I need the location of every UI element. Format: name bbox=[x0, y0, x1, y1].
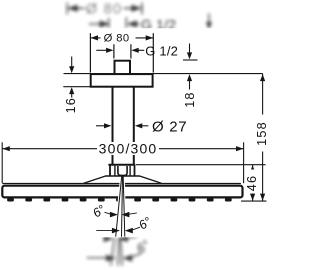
cone collar right side bbox=[134, 165, 136, 176]
dimension 158 top arrow bbox=[260, 74, 265, 81]
blurred letterbox band bottom (faded ghost of spray annotations) bbox=[87, 235, 153, 265]
dimension 300/300 extension left bbox=[1, 142, 3, 183]
svg-text:16: 16 bbox=[64, 97, 78, 113]
dimension 16 up arrow bbox=[69, 87, 74, 94]
svg-text:300/300: 300/300 bbox=[99, 140, 158, 156]
dimension 18 top extension line bbox=[183, 59, 198, 61]
G1/2 extension tick right bbox=[130, 44, 132, 58]
dimension O80 extension line right bbox=[152, 33, 154, 72]
dimension 300/300 right arrow bbox=[236, 146, 243, 151]
upper 6-degree right leader arrow bbox=[121, 212, 129, 218]
spray line halo bbox=[116, 177, 125, 237]
pipe right edge bbox=[133, 87, 135, 164]
ceiling line bbox=[64, 73, 263, 75]
svg-text:G 1/2: G 1/2 bbox=[145, 44, 178, 59]
dimension O80 extension line left bbox=[89, 33, 91, 72]
svg-text:18: 18 bbox=[183, 91, 197, 107]
spray line right bbox=[123, 176, 125, 237]
dimension 46 line bbox=[252, 165, 254, 201]
head band bbox=[2, 186, 242, 198]
head slope right bbox=[140, 176, 162, 183]
blurred letterbox band top (faded ghost of dimension rows) bbox=[67, 2, 212, 33]
svg-text:Ø 80: Ø 80 bbox=[86, 2, 122, 18]
head top surface line bbox=[2, 183, 241, 185]
dimension 158 line bbox=[262, 74, 264, 202]
spray line left bbox=[116, 176, 122, 237]
cone inner cup bbox=[118, 166, 127, 175]
dimension 46 top arrow bbox=[250, 165, 255, 172]
label 158 halo bbox=[257, 115, 270, 152]
cone nut inner left line bbox=[114, 166, 116, 176]
svg-text:158: 158 bbox=[255, 121, 269, 146]
ceiling plate bbox=[91, 74, 153, 87]
dimension 300/300 left arrow bbox=[2, 146, 9, 151]
spray line center bbox=[122, 176, 123, 237]
cone collar left side bbox=[109, 165, 111, 176]
head plateau line bbox=[105, 175, 140, 177]
dimension 300/300 line bbox=[2, 148, 243, 150]
svg-text:Ø 27: Ø 27 bbox=[152, 118, 187, 135]
cone collar top bbox=[108, 164, 135, 166]
label O80 halo bbox=[101, 32, 136, 44]
spray nozzles row bbox=[7, 198, 232, 201]
lower 6-degree left leader arrow bbox=[96, 230, 114, 232]
dimension 158 extension bottom line bbox=[241, 200, 267, 202]
svg-text:Ø 80: Ø 80 bbox=[104, 33, 130, 45]
cone nut inner right line bbox=[129, 166, 131, 176]
dimension 46 top extension line bbox=[136, 164, 266, 166]
nipple G1/2 thread bbox=[115, 61, 131, 74]
dimension 16 down arrow bbox=[71, 57, 73, 68]
G1/2 left leader arrow bbox=[96, 49, 107, 51]
dimension 18 down arrow bbox=[189, 44, 191, 54]
dimension O27 left leader arrow bbox=[96, 125, 106, 127]
head slope left bbox=[84, 176, 106, 183]
label 46 halo bbox=[247, 170, 260, 194]
dimension O80 right arrow bbox=[146, 35, 153, 40]
svg-text:46: 46 bbox=[245, 175, 259, 191]
label 300/300 halo bbox=[97, 142, 159, 155]
dimension O80 left arrow bbox=[91, 35, 98, 40]
dimension 46 bottom arrow bbox=[250, 194, 255, 201]
dimension 18 up arrow bbox=[187, 74, 192, 81]
dimension 16 bottom extension line bbox=[63, 86, 94, 88]
upper 6-degree left leader arrow bbox=[105, 212, 112, 214]
dimension 158 bottom arrow bbox=[260, 194, 265, 201]
dimension 300/300 extension right bbox=[243, 142, 245, 183]
pipe left edge bbox=[112, 87, 114, 164]
lower 6-degree right leader arrow bbox=[125, 228, 133, 234]
G1/2 right leader arrow bbox=[131, 48, 138, 53]
G1/2 extension tick left bbox=[113, 44, 115, 58]
dimension O80 line bbox=[90, 37, 153, 39]
dimension O27 right leader arrow bbox=[135, 123, 142, 128]
